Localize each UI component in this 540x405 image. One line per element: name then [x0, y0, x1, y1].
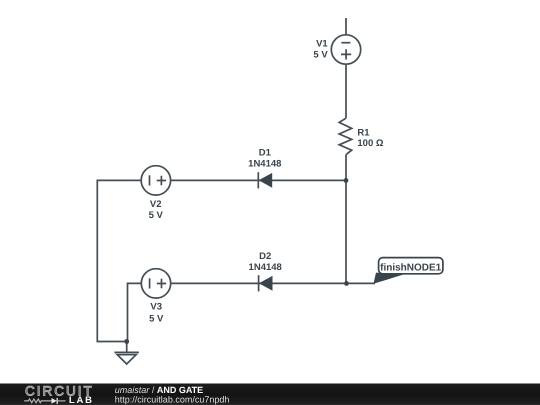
wire D1 row — [171, 179, 346, 181]
wire R1 to D2 row — [345, 155, 347, 284]
svg-text:100 Ω: 100 Ω — [357, 138, 383, 149]
diode D2 — [259, 275, 273, 291]
ground — [114, 342, 138, 365]
wire V2 left — [97, 180, 141, 341]
svg-text:http://circuitlab.com/cu7npdh: http://circuitlab.com/cu7npdh — [115, 395, 230, 405]
voltage source V3 — [141, 269, 170, 298]
svg-text:V2: V2 — [150, 199, 162, 210]
logo resistor zigzag — [24, 399, 51, 403]
resistor R1 — [339, 118, 352, 154]
svg-text:1N4148: 1N4148 — [249, 262, 282, 273]
footer bar — [0, 384, 540, 405]
svg-text:V3: V3 — [150, 302, 162, 313]
svg-text:R1: R1 — [357, 127, 370, 138]
diode D1 — [258, 172, 272, 188]
voltage source V1 — [331, 35, 360, 64]
wire V1 top lead — [345, 18, 347, 35]
svg-text:V1: V1 — [316, 39, 328, 50]
svg-text:5 V: 5 V — [313, 50, 328, 61]
node junction at ground — [124, 339, 129, 344]
svg-text:1N4148: 1N4148 — [248, 159, 281, 170]
node flag finishNODE1 — [374, 258, 443, 284]
svg-text:5 V: 5 V — [149, 313, 164, 324]
svg-text:LAB: LAB — [69, 395, 94, 405]
svg-text:umaistar / AND GATE: umaistar / AND GATE — [115, 385, 203, 395]
svg-text:D1: D1 — [259, 148, 272, 159]
svg-text:D2: D2 — [259, 251, 271, 262]
node junction at D2 row — [344, 281, 349, 286]
wire V1 to R1 — [345, 64, 347, 118]
voltage source V2 — [141, 166, 170, 195]
svg-text:5 V: 5 V — [149, 210, 164, 221]
svg-text:finishNODE1: finishNODE1 — [380, 262, 442, 273]
wire V3 left down to ground node — [128, 283, 142, 341]
node junction at R1/D1 — [344, 178, 349, 183]
wire D2 row — [171, 282, 375, 284]
logo diode — [52, 398, 57, 404]
